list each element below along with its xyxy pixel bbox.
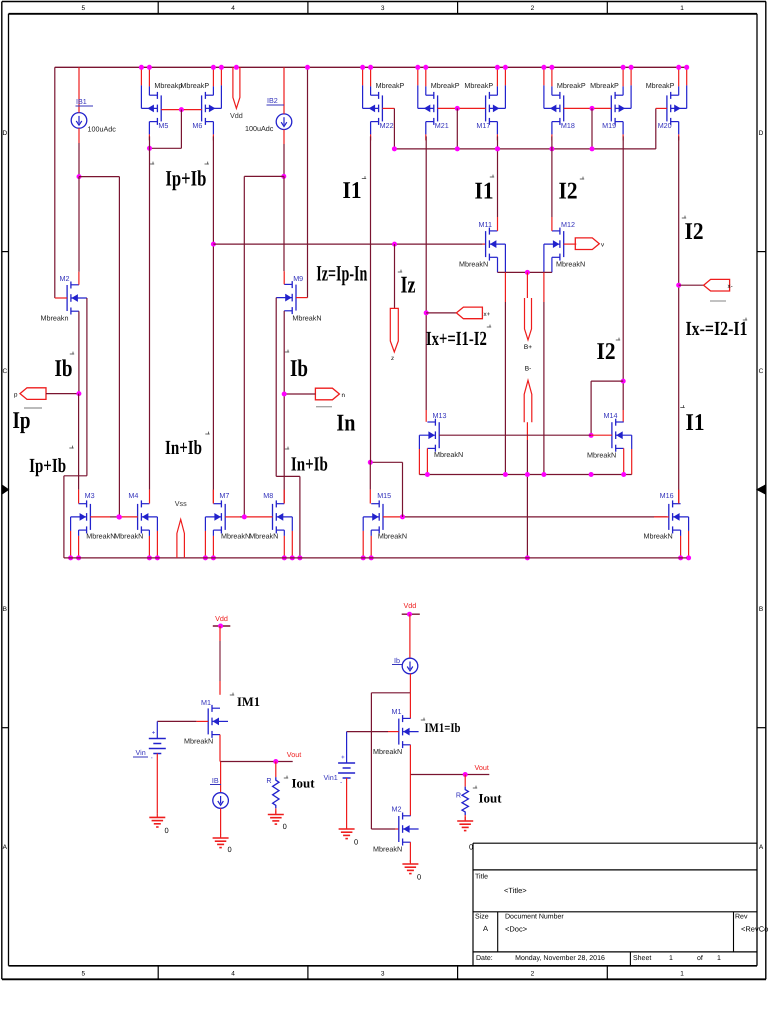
svg-text:A: A bbox=[759, 844, 764, 851]
svg-text:1: 1 bbox=[717, 955, 721, 962]
svg-text:M11: M11 bbox=[479, 220, 492, 229]
svg-text:I1: I1 bbox=[475, 179, 494, 205]
svg-text:MbreakP: MbreakP bbox=[180, 81, 209, 90]
svg-text:-: - bbox=[340, 780, 342, 786]
svg-text:1: 1 bbox=[669, 955, 673, 962]
svg-text:0: 0 bbox=[417, 873, 421, 882]
svg-text:2: 2 bbox=[531, 971, 535, 978]
svg-text:Vdd: Vdd bbox=[230, 111, 243, 120]
svg-text:MbreakN: MbreakN bbox=[86, 531, 115, 540]
svg-text:M4: M4 bbox=[128, 491, 138, 500]
svg-text:Rev: Rev bbox=[735, 914, 748, 921]
svg-text:M20: M20 bbox=[658, 121, 672, 130]
svg-text:MbreakN: MbreakN bbox=[373, 747, 402, 756]
svg-text:M19: M19 bbox=[602, 121, 616, 130]
svg-text:MbreakN: MbreakN bbox=[221, 531, 250, 540]
svg-text:M18: M18 bbox=[561, 121, 575, 130]
svg-text:Mbreakp: Mbreakp bbox=[154, 81, 182, 90]
svg-text:M14: M14 bbox=[604, 411, 618, 420]
svg-text:MbreakP: MbreakP bbox=[376, 81, 405, 90]
svg-text:B: B bbox=[759, 606, 763, 613]
svg-text:M22: M22 bbox=[380, 121, 394, 130]
svg-text:Vout: Vout bbox=[475, 763, 489, 772]
svg-text:<Title>: <Title> bbox=[504, 886, 527, 895]
svg-text:M16: M16 bbox=[660, 491, 674, 500]
svg-text:p: p bbox=[14, 392, 18, 399]
svg-text:A: A bbox=[3, 844, 8, 851]
svg-text:MbreakN: MbreakN bbox=[184, 737, 213, 746]
svg-text:100uAdc: 100uAdc bbox=[245, 124, 274, 133]
svg-text:In+Ib: In+Ib bbox=[165, 437, 202, 459]
svg-text:M1: M1 bbox=[392, 707, 402, 716]
svg-text:MbreakN: MbreakN bbox=[556, 260, 585, 269]
svg-text:Mbreakn: Mbreakn bbox=[41, 314, 69, 323]
svg-text:Ix-=I2-I1: Ix-=I2-I1 bbox=[686, 318, 748, 340]
svg-text:Ip+Ib: Ip+Ib bbox=[29, 455, 66, 477]
svg-text:A: A bbox=[483, 924, 488, 933]
svg-text:IM1=Ib: IM1=Ib bbox=[425, 720, 461, 735]
svg-text:0: 0 bbox=[165, 826, 169, 835]
svg-text:Ip+Ib: Ip+Ib bbox=[165, 166, 206, 191]
svg-text:M1: M1 bbox=[201, 698, 211, 707]
svg-text:MbreakN: MbreakN bbox=[373, 845, 402, 854]
svg-text:I1: I1 bbox=[686, 410, 705, 436]
svg-text:Vin1: Vin1 bbox=[323, 773, 337, 782]
svg-text:MbreakN: MbreakN bbox=[114, 531, 143, 540]
svg-text:n: n bbox=[342, 392, 346, 399]
svg-text:I2: I2 bbox=[559, 179, 578, 205]
svg-text:Ib: Ib bbox=[394, 656, 400, 665]
svg-text:I2: I2 bbox=[685, 219, 704, 245]
svg-text:In+Ib: In+Ib bbox=[291, 454, 328, 476]
svg-text:M7: M7 bbox=[219, 491, 229, 500]
svg-text:0: 0 bbox=[469, 843, 473, 852]
svg-text:+: + bbox=[152, 731, 156, 737]
svg-text:IB1: IB1 bbox=[76, 97, 87, 106]
svg-text:<RevCod: <RevCod bbox=[741, 925, 768, 934]
svg-text:Ib: Ib bbox=[290, 356, 308, 382]
svg-text:z: z bbox=[391, 355, 394, 362]
svg-text:M6: M6 bbox=[192, 121, 202, 130]
svg-text:MbreakN: MbreakN bbox=[378, 531, 407, 540]
svg-text:4: 4 bbox=[231, 5, 235, 12]
svg-text:MbreakP: MbreakP bbox=[646, 81, 675, 90]
svg-text:Date:: Date: bbox=[476, 955, 493, 962]
svg-text:D: D bbox=[759, 130, 764, 137]
svg-text:C: C bbox=[759, 368, 764, 375]
svg-text:1: 1 bbox=[680, 5, 684, 12]
svg-text:MbreakN: MbreakN bbox=[644, 531, 673, 540]
svg-text:M5: M5 bbox=[158, 121, 168, 130]
svg-text:M9: M9 bbox=[293, 274, 303, 283]
svg-text:Iz=Ip-In: Iz=Ip-In bbox=[316, 261, 367, 286]
svg-text:M12: M12 bbox=[561, 220, 575, 229]
svg-text:Iout: Iout bbox=[479, 791, 503, 806]
svg-text:Ib: Ib bbox=[55, 356, 73, 382]
svg-text:Vss: Vss bbox=[175, 499, 187, 508]
svg-text:Monday, November 28, 2016: Monday, November 28, 2016 bbox=[515, 954, 605, 962]
svg-text:Document Number: Document Number bbox=[505, 913, 564, 921]
svg-text:I1: I1 bbox=[343, 178, 362, 204]
svg-text:D: D bbox=[2, 130, 7, 137]
svg-text:B+: B+ bbox=[524, 344, 532, 351]
svg-text:IM1: IM1 bbox=[237, 694, 260, 709]
svg-text:Title: Title bbox=[475, 873, 488, 881]
svg-text:R: R bbox=[266, 776, 271, 785]
svg-text:I2: I2 bbox=[597, 339, 616, 365]
svg-text:MbreakP: MbreakP bbox=[431, 81, 460, 90]
svg-text:M17: M17 bbox=[476, 121, 490, 130]
svg-text:0: 0 bbox=[354, 838, 358, 847]
svg-text:<Doc>: <Doc> bbox=[505, 925, 528, 934]
svg-text:3: 3 bbox=[381, 971, 385, 978]
svg-text:Ip: Ip bbox=[13, 408, 31, 434]
svg-text:M13: M13 bbox=[433, 411, 447, 420]
svg-text:Ix+=I1-I2: Ix+=I1-I2 bbox=[426, 328, 487, 350]
svg-text:M2: M2 bbox=[392, 805, 402, 814]
svg-text:B-: B- bbox=[525, 366, 532, 373]
svg-text:MbreakN: MbreakN bbox=[434, 450, 463, 459]
svg-text:Iz: Iz bbox=[401, 273, 416, 299]
svg-text:Vdd: Vdd bbox=[215, 614, 228, 623]
svg-text:Sheet: Sheet bbox=[633, 954, 651, 962]
svg-text:MbreakN: MbreakN bbox=[587, 451, 616, 460]
svg-text:Iout: Iout bbox=[292, 776, 316, 791]
svg-text:5: 5 bbox=[81, 5, 85, 12]
svg-text:MbreakN: MbreakN bbox=[459, 260, 488, 269]
svg-text:M21: M21 bbox=[435, 121, 449, 130]
svg-text:2: 2 bbox=[531, 5, 535, 12]
svg-text:B: B bbox=[3, 606, 7, 613]
svg-text:M15: M15 bbox=[377, 491, 391, 500]
svg-text:-: - bbox=[151, 756, 153, 762]
svg-text:3: 3 bbox=[381, 5, 385, 12]
svg-text:x-: x- bbox=[728, 283, 733, 290]
svg-text:MbreakP: MbreakP bbox=[590, 81, 619, 90]
svg-text:100uAdc: 100uAdc bbox=[88, 125, 117, 134]
svg-text:IB: IB bbox=[212, 776, 219, 785]
svg-text:+: + bbox=[341, 755, 345, 761]
svg-text:MbreakN: MbreakN bbox=[292, 314, 321, 323]
svg-text:C: C bbox=[2, 368, 7, 375]
svg-text:M2: M2 bbox=[60, 274, 70, 283]
svg-text:Vin: Vin bbox=[135, 748, 145, 757]
svg-text:M3: M3 bbox=[85, 491, 95, 500]
svg-text:Vout: Vout bbox=[287, 750, 301, 759]
svg-text:In: In bbox=[336, 411, 355, 437]
svg-text:M8: M8 bbox=[263, 491, 273, 500]
svg-text:1: 1 bbox=[680, 971, 684, 978]
svg-text:of: of bbox=[697, 954, 703, 962]
svg-text:Vdd: Vdd bbox=[404, 601, 417, 610]
svg-text:x+: x+ bbox=[484, 311, 491, 318]
svg-text:MbreakN: MbreakN bbox=[249, 531, 278, 540]
svg-text:IB2: IB2 bbox=[267, 96, 278, 105]
svg-text:4: 4 bbox=[231, 971, 235, 978]
svg-text:R: R bbox=[456, 791, 461, 800]
svg-text:MbreakP: MbreakP bbox=[557, 81, 586, 90]
svg-text:5: 5 bbox=[81, 971, 85, 978]
svg-text:0: 0 bbox=[228, 845, 232, 854]
svg-text:MbreakP: MbreakP bbox=[464, 81, 493, 90]
svg-text:Size: Size bbox=[475, 913, 489, 921]
svg-text:0: 0 bbox=[283, 822, 287, 831]
